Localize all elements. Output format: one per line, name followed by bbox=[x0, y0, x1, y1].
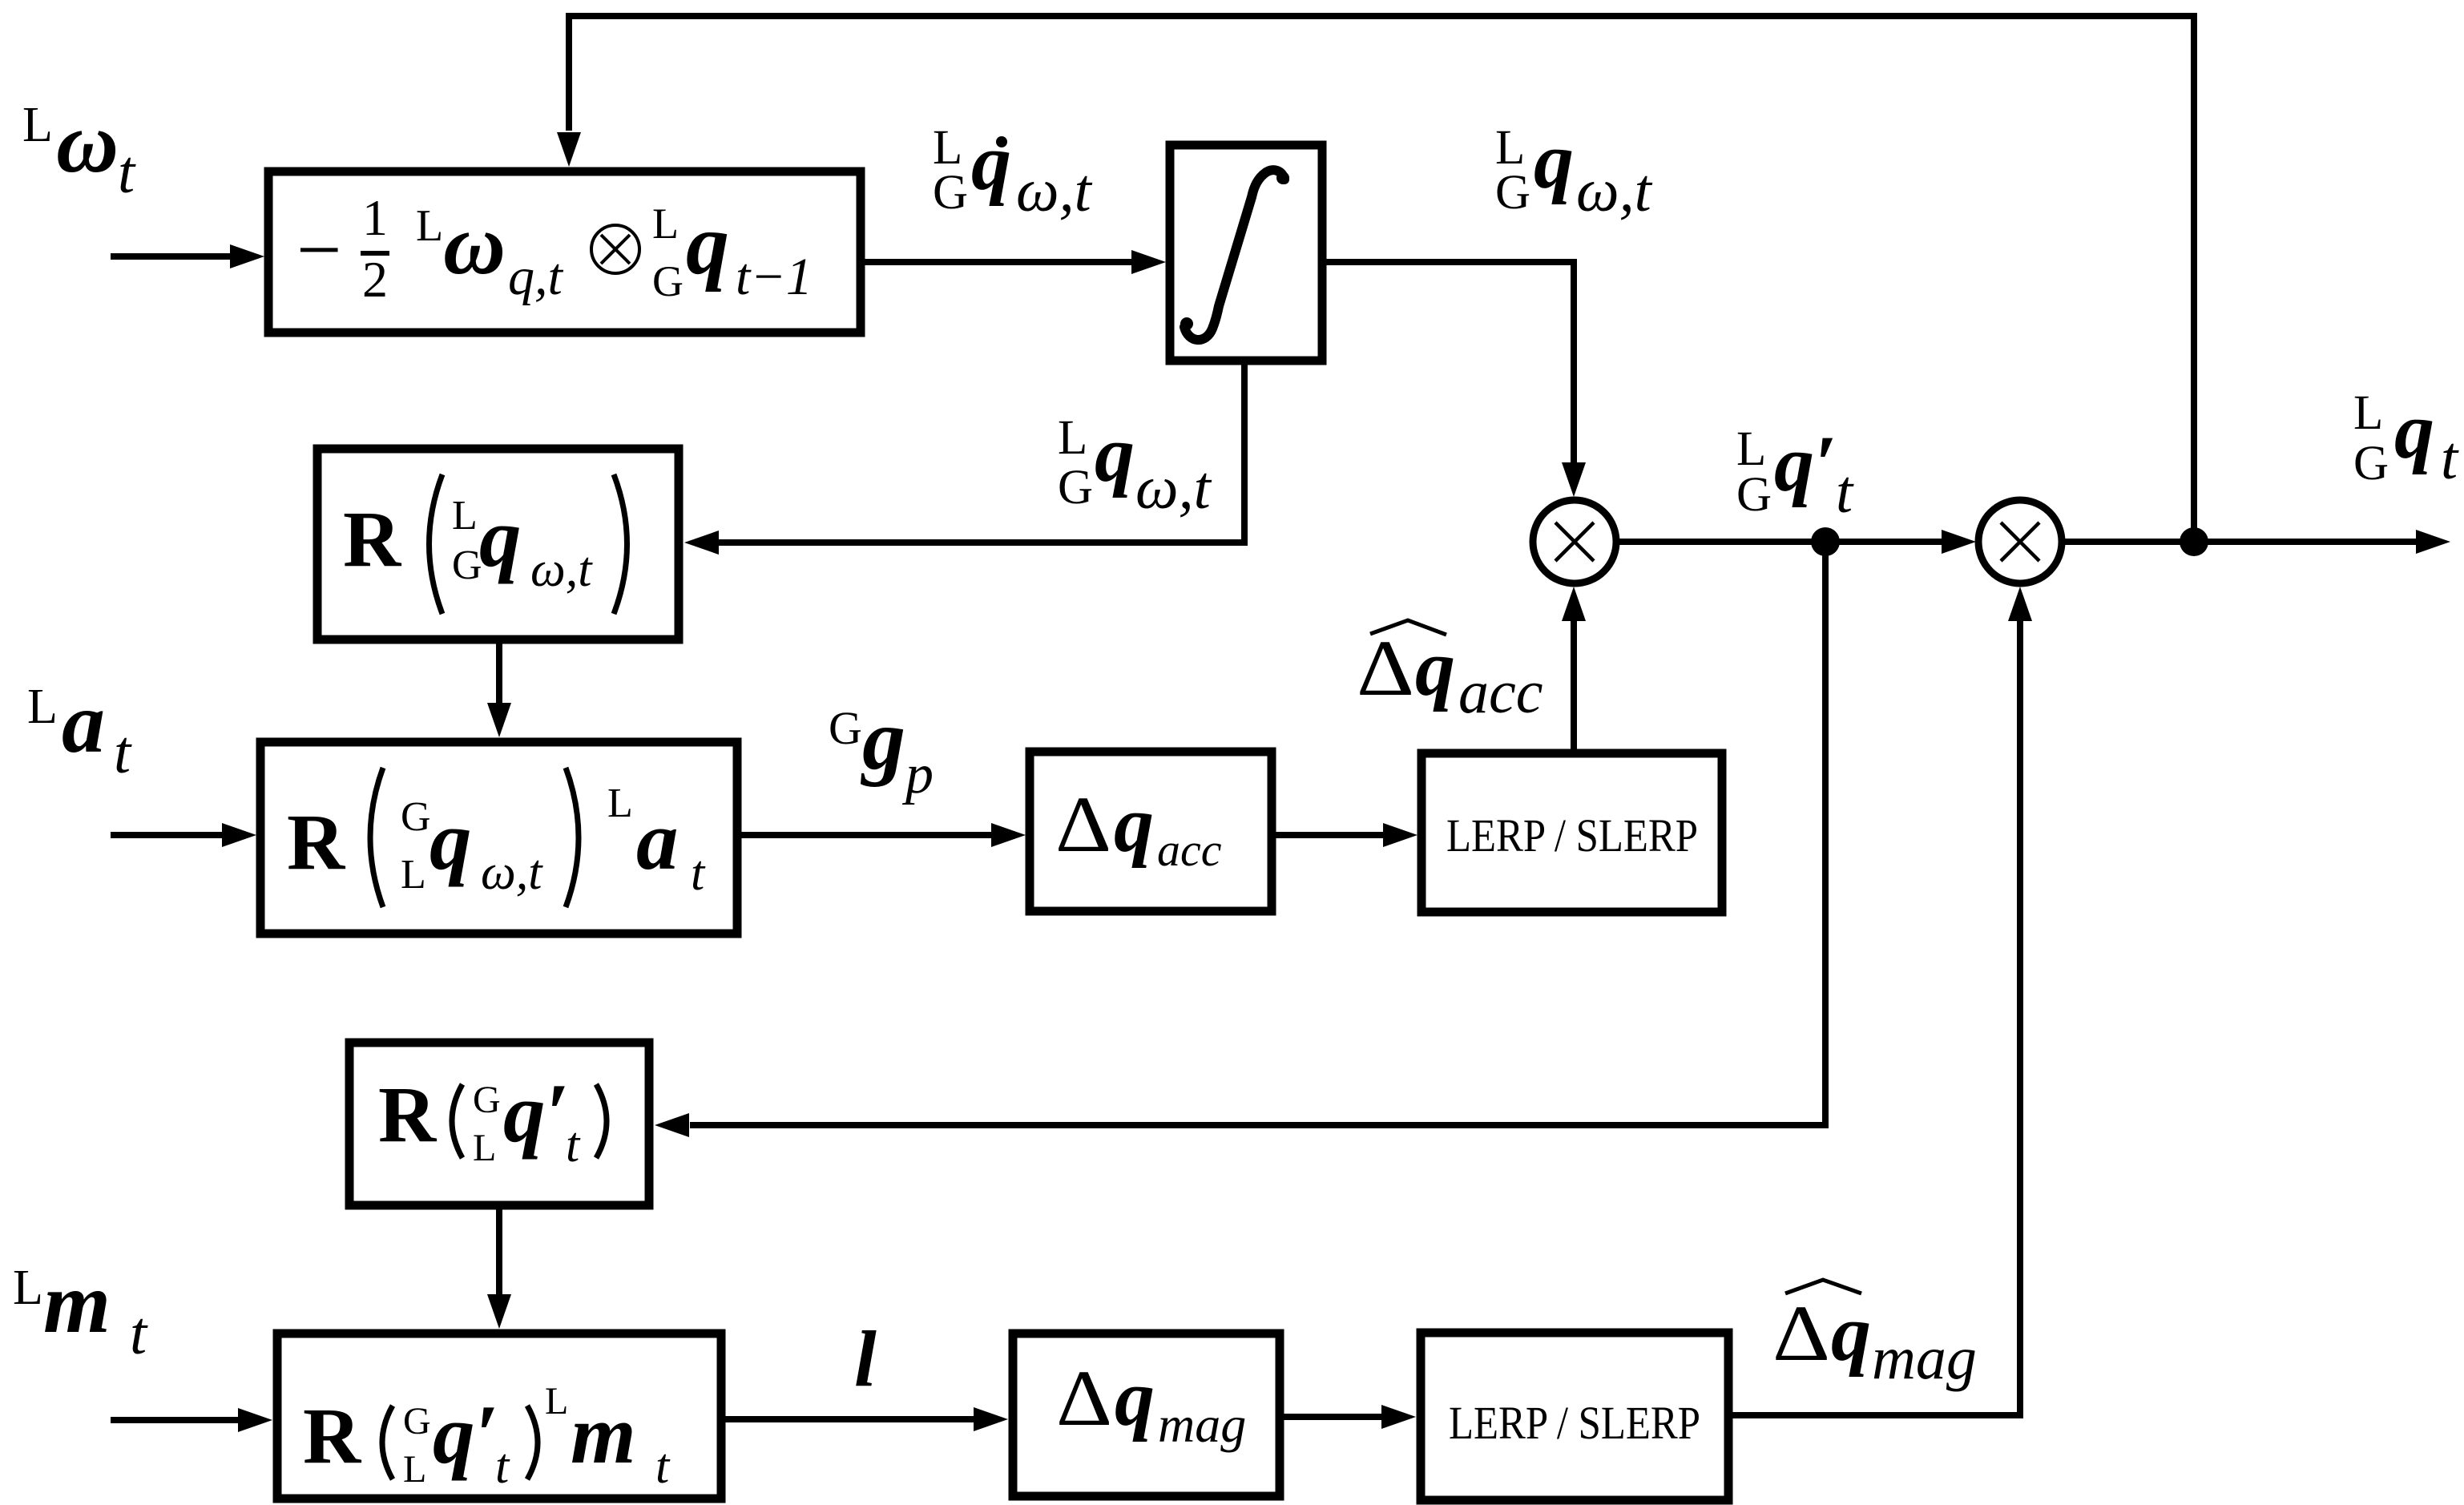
svg-text:R: R bbox=[343, 494, 402, 583]
svg-text:G: G bbox=[403, 1400, 431, 1442]
svg-text:m: m bbox=[43, 1256, 111, 1351]
svg-text:L: L bbox=[27, 680, 58, 734]
wire: LERP2 right then up into M2 bbox=[1728, 587, 2032, 1415]
wire: omega input arrow bbox=[111, 244, 264, 268]
svg-text:q: q bbox=[1095, 410, 1135, 498]
svg-text:LERP / SLERP: LERP / SLERP bbox=[1449, 1397, 1700, 1449]
svg-text:a: a bbox=[62, 676, 105, 771]
svg-text:L: L bbox=[2353, 386, 2383, 440]
svg-text:Δ: Δ bbox=[1772, 1289, 1830, 1378]
wire: M2 to output bbox=[2062, 530, 2450, 554]
svg-text:q: q bbox=[1831, 1289, 1871, 1378]
svg-text:ω,t: ω,t bbox=[1135, 454, 1212, 522]
svg-text:L: L bbox=[416, 201, 443, 251]
svg-text:a: a bbox=[636, 793, 679, 887]
wire: R2 down to box C bbox=[487, 1205, 511, 1329]
svg-text:G: G bbox=[829, 702, 862, 754]
integral sign bbox=[1180, 170, 1289, 340]
formula in R2: R(GL q' t) bbox=[378, 1066, 607, 1172]
svg-text:ω,t: ω,t bbox=[1016, 157, 1093, 224]
label: LG q w,t (after integrator) bbox=[1495, 116, 1653, 224]
label: LG qdot w,t bbox=[933, 118, 1093, 224]
svg-text:G: G bbox=[1736, 468, 1772, 522]
multiplier M1 (otimes) bbox=[1533, 500, 1616, 583]
svg-text:m: m bbox=[571, 1387, 636, 1481]
wire: M1 to M2 bbox=[1616, 530, 1976, 554]
wire: delta q acc to LERP1 bbox=[1272, 823, 1418, 847]
block: LERP/SLERP mag bbox=[1421, 1333, 1728, 1500]
label: LG q t (output) bbox=[2353, 386, 2459, 492]
svg-text:t: t bbox=[655, 1439, 671, 1494]
svg-text:R: R bbox=[303, 1391, 362, 1480]
svg-text:q: q bbox=[429, 793, 472, 887]
svg-text:L: L bbox=[652, 200, 679, 248]
svg-text:L: L bbox=[401, 852, 426, 898]
wire: box C to delta q mag bbox=[721, 1407, 1008, 1431]
svg-text:q,t: q,t bbox=[508, 248, 564, 306]
svg-text:mag: mag bbox=[1158, 1396, 1246, 1453]
formula: delta q acc inside box bbox=[1055, 780, 1222, 876]
wire: feedback from qt node up over to box A top bbox=[557, 16, 2194, 539]
node qt junction dot bbox=[2180, 527, 2208, 556]
wire: mag input arrow bbox=[111, 1408, 272, 1432]
svg-text:t: t bbox=[130, 1300, 148, 1367]
block: delta q acc bbox=[1030, 752, 1272, 911]
svg-text:q: q bbox=[479, 490, 522, 584]
label: L m t (mag input) bbox=[13, 1256, 148, 1367]
block: rotation R2 bbox=[349, 1043, 649, 1205]
svg-text:Δ: Δ bbox=[1056, 1354, 1112, 1442]
node q' junction dot bbox=[1811, 527, 1840, 556]
svg-text:Δ: Δ bbox=[1357, 623, 1414, 712]
svg-text:t: t bbox=[691, 846, 706, 901]
svg-text:ω: ω bbox=[56, 95, 119, 191]
wire: box B to delta q acc bbox=[737, 823, 1026, 847]
svg-text:q: q bbox=[1114, 780, 1154, 869]
svg-text:G: G bbox=[1058, 461, 1093, 514]
svg-text:L: L bbox=[607, 781, 633, 826]
wire: integrator out right then down into M1 bbox=[1322, 262, 1586, 497]
label: L a t (accel input) bbox=[27, 676, 132, 786]
label: G g p bbox=[829, 692, 934, 805]
formula in box C: R(GL q' t) L m t bbox=[303, 1380, 671, 1494]
svg-text:l: l bbox=[854, 1314, 877, 1403]
svg-text:t: t bbox=[1836, 458, 1854, 526]
svg-text:t−1: t−1 bbox=[736, 248, 813, 306]
formula in box B: R(GL q w,t) L a t bbox=[287, 768, 706, 907]
svg-text:q′: q′ bbox=[433, 1387, 498, 1481]
block: delta q mag bbox=[1013, 1334, 1280, 1496]
wire: LERP1 up into M1 bbox=[1562, 587, 1586, 753]
wire: q' node down then left into R2 bbox=[655, 542, 1825, 1137]
svg-text:q: q bbox=[2394, 386, 2434, 475]
svg-text:G: G bbox=[1495, 166, 1530, 220]
label: L omega t (gyro input) bbox=[22, 95, 136, 206]
formula: delta q mag inside box bbox=[1056, 1354, 1246, 1453]
block: rotate mag (box C) bbox=[277, 1334, 721, 1499]
svg-text:1: 1 bbox=[362, 189, 388, 246]
svg-text:G: G bbox=[473, 1079, 501, 1121]
svg-text:t: t bbox=[566, 1118, 581, 1172]
svg-text:q: q bbox=[1415, 623, 1455, 712]
block: rotation R1 bbox=[317, 449, 679, 640]
svg-text:t: t bbox=[2441, 425, 2459, 492]
multiplier M2 (otimes) bbox=[1978, 500, 2062, 583]
block: integrator bbox=[1170, 145, 1322, 361]
svg-text:t: t bbox=[495, 1439, 510, 1494]
svg-text:g: g bbox=[861, 692, 905, 788]
svg-text:G: G bbox=[933, 166, 968, 220]
svg-text:L: L bbox=[13, 1261, 43, 1315]
svg-text:L: L bbox=[452, 493, 478, 539]
svg-text:q: q bbox=[1115, 1354, 1155, 1442]
label: hat delta q mag bbox=[1772, 1280, 1977, 1392]
svg-text:G: G bbox=[401, 794, 431, 840]
block: quaternion derivative -1/2 Lw x q (box A) bbox=[268, 171, 861, 333]
svg-text:LERP / SLERP: LERP / SLERP bbox=[1446, 809, 1698, 861]
svg-text:q′: q′ bbox=[503, 1066, 569, 1160]
svg-text:ω,t: ω,t bbox=[1576, 157, 1653, 224]
svg-text:acc: acc bbox=[1157, 824, 1222, 876]
wire: delta q mag to LERP2 bbox=[1280, 1405, 1416, 1429]
svg-text:L: L bbox=[545, 1380, 568, 1422]
svg-text:q′: q′ bbox=[1774, 419, 1837, 508]
wire: accel input arrow bbox=[111, 823, 256, 847]
svg-text:G: G bbox=[652, 257, 684, 305]
label: hat delta q acc bbox=[1357, 620, 1543, 726]
block: rotate accel (box B) bbox=[260, 742, 737, 934]
svg-text:L: L bbox=[403, 1448, 426, 1491]
svg-text:t: t bbox=[118, 139, 136, 206]
formula in box A bbox=[296, 189, 813, 308]
svg-text:q: q bbox=[686, 197, 729, 293]
svg-text:mag: mag bbox=[1872, 1325, 1977, 1392]
svg-text:q: q bbox=[971, 118, 1011, 207]
svg-text:G: G bbox=[2353, 437, 2389, 490]
svg-text:t: t bbox=[114, 719, 132, 786]
svg-text:L: L bbox=[22, 98, 53, 152]
svg-text:R: R bbox=[287, 797, 346, 886]
svg-text:acc: acc bbox=[1458, 659, 1543, 726]
label: LG q' t (after M1) bbox=[1736, 419, 1854, 526]
svg-text:p: p bbox=[901, 744, 934, 805]
svg-text:L: L bbox=[473, 1127, 496, 1169]
wire: box A to integrator bbox=[861, 250, 1166, 274]
wire: integrator bottom down then left into R1 bbox=[684, 361, 1244, 555]
wire: R1 down to box B bbox=[487, 640, 511, 737]
svg-text:G: G bbox=[452, 543, 482, 588]
svg-text:2: 2 bbox=[362, 251, 388, 308]
label: LG q w,t (to R1) bbox=[1058, 410, 1212, 522]
block: LERP/SLERP acc bbox=[1422, 753, 1722, 912]
formula in R1: R(LG q w,t) bbox=[343, 474, 627, 614]
svg-text:Δ: Δ bbox=[1055, 780, 1111, 869]
svg-text:ω: ω bbox=[443, 197, 506, 293]
svg-text:R: R bbox=[378, 1070, 438, 1159]
svg-text:L: L bbox=[1058, 411, 1087, 465]
svg-text:q: q bbox=[1534, 116, 1574, 205]
svg-text:−: − bbox=[296, 205, 341, 294]
svg-text:ω,t: ω,t bbox=[530, 543, 593, 597]
svg-text:ω,t: ω,t bbox=[481, 845, 543, 900]
